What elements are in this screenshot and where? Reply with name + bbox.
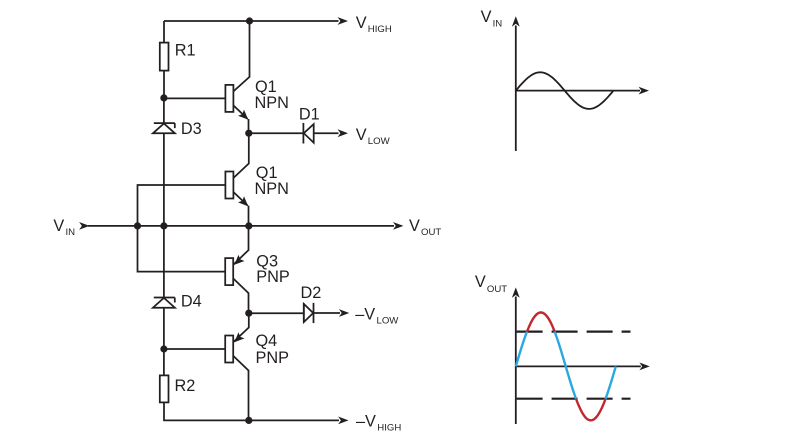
svg-text:D3: D3 bbox=[181, 120, 202, 138]
node R1 / Q1 base bbox=[160, 94, 167, 101]
svg-text:OUT: OUT bbox=[421, 227, 441, 238]
wire to D2 bbox=[249, 312, 304, 314]
wire D1 to V_LOW bbox=[314, 132, 339, 134]
graph Vout axes bbox=[516, 297, 641, 425]
wire Q4 base bbox=[164, 348, 225, 350]
arrow to V_OUT bbox=[393, 222, 403, 230]
transistor Q4 PNP bbox=[225, 313, 249, 420]
node Q3 collector / D2 bbox=[245, 310, 252, 317]
svg-text:V: V bbox=[409, 217, 420, 235]
arrow Vin y-axis bbox=[512, 16, 520, 26]
wire D2 to -V_LOW bbox=[314, 312, 341, 314]
diode D3 (zener) bbox=[153, 123, 175, 133]
wire R2 bottom corner bbox=[164, 402, 339, 420]
node output bbox=[245, 222, 252, 229]
wire R1 bottom to base node bbox=[163, 71, 165, 98]
wire to D1 bbox=[249, 132, 304, 134]
wire D4 chain from input line bbox=[163, 226, 165, 298]
wire Q3 base to left bus bbox=[138, 226, 226, 272]
node input bus mid bbox=[160, 222, 167, 229]
wire top rail bbox=[164, 20, 339, 22]
node bottom rail bbox=[245, 417, 252, 424]
svg-text:NPN: NPN bbox=[255, 94, 289, 112]
svg-text:V: V bbox=[356, 126, 367, 144]
arrow to V_HIGH bbox=[338, 17, 348, 25]
svg-text:HIGH: HIGH bbox=[368, 24, 392, 35]
svg-text:R1: R1 bbox=[175, 42, 196, 60]
clipping level lower dashed bbox=[517, 398, 631, 400]
svg-text:OUT: OUT bbox=[487, 284, 507, 295]
arrow Vout x-axis bbox=[639, 363, 649, 371]
arrow Vin x-axis bbox=[639, 87, 649, 95]
svg-text:Q4: Q4 bbox=[256, 332, 278, 350]
arrow from V_IN bbox=[79, 222, 89, 230]
wire Q1 base bbox=[164, 97, 226, 99]
svg-text:D4: D4 bbox=[181, 293, 202, 311]
svg-text:V: V bbox=[356, 14, 367, 32]
curve Vout blue segment 3 bbox=[606, 366, 616, 398]
svg-text:–V: –V bbox=[356, 413, 376, 431]
curve Vout red segment 1 bbox=[527, 312, 555, 331]
svg-text:D1: D1 bbox=[299, 105, 320, 123]
svg-text:PNP: PNP bbox=[256, 349, 289, 367]
svg-text:IN: IN bbox=[493, 19, 503, 30]
svg-text:NPN: NPN bbox=[255, 180, 289, 198]
arrow Vout y-axis bbox=[512, 287, 520, 297]
graph Vin axes bbox=[516, 26, 640, 152]
curve Vout red segment 2 bbox=[576, 399, 606, 421]
node Q1 emitter / D1 bbox=[245, 130, 252, 137]
wire input/output horizontal line bbox=[88, 225, 394, 227]
curve Vout blue segment 1 bbox=[516, 332, 527, 367]
diode D1 bbox=[303, 123, 313, 144]
svg-text:LOW: LOW bbox=[368, 136, 391, 147]
arrow to V_LOW bbox=[338, 129, 348, 137]
diode D2 bbox=[304, 303, 314, 323]
diode D4 (zener) bbox=[153, 298, 175, 308]
svg-text:V: V bbox=[475, 273, 486, 291]
svg-text:IN: IN bbox=[66, 227, 76, 238]
wire D3 bottom to input line bbox=[163, 133, 165, 226]
resistor R1 bbox=[160, 43, 169, 71]
curve Vout blue segment 2 bbox=[555, 332, 576, 399]
svg-text:V: V bbox=[481, 8, 492, 26]
svg-text:V: V bbox=[53, 217, 64, 235]
svg-text:PNP: PNP bbox=[256, 268, 289, 286]
svg-text:R2: R2 bbox=[175, 377, 196, 395]
arrow to -V_LOW bbox=[339, 309, 349, 317]
resistor R2 bbox=[160, 375, 169, 402]
clipping level upper dashed bbox=[517, 331, 631, 333]
wire top-left vertical to R1 bbox=[163, 21, 165, 43]
svg-text:HIGH: HIGH bbox=[377, 423, 401, 434]
node Q4 base bbox=[160, 345, 167, 352]
wire Q2 base to left bus bbox=[138, 185, 226, 226]
node top rail junction bbox=[246, 17, 253, 24]
node input bus left bbox=[134, 222, 141, 229]
wire D4 bottom to Q4 base node bbox=[163, 308, 165, 349]
svg-text:D2: D2 bbox=[301, 284, 322, 302]
curve Vin sine bbox=[516, 72, 614, 109]
wire to R2 bbox=[163, 349, 165, 375]
transistor Q1 top NPN bbox=[225, 21, 249, 133]
svg-text:–V: –V bbox=[355, 306, 375, 324]
transistor Q3 PNP bbox=[225, 226, 248, 313]
transistor Q2 (labelled Q1) NPN bbox=[225, 133, 248, 226]
arrow to -V_HIGH bbox=[338, 417, 348, 425]
wire D3 top lead bbox=[163, 98, 165, 123]
svg-text:LOW: LOW bbox=[377, 316, 400, 327]
